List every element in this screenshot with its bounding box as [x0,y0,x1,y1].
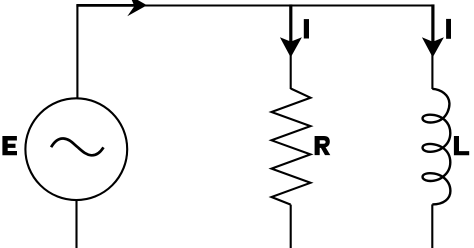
wire resistor bottom [290,205,292,248]
wire source bottom [75,200,77,248]
label I resistor branch [304,19,309,38]
arrowhead resistor branch current [280,37,302,57]
wire inductor top [431,53,433,89]
sine wave inside source [51,138,103,155]
wire inductor branch arrow shaft [431,4,434,44]
wire top horizontal [77,6,434,99]
wire resistor top [290,53,292,89]
ac source E circle [25,98,127,200]
label L [454,136,469,155]
wire inductor bottom [431,204,433,248]
arrowhead supply current [127,0,147,16]
arrowhead inductor branch current [422,37,444,57]
wire supply current bold segment [76,4,138,7]
label R [315,136,331,155]
label E [2,136,17,155]
inductor L coil [423,89,451,205]
resistor R zigzag [272,89,311,205]
wire resistor branch arrow shaft [289,4,292,44]
label I inductor branch [446,19,451,39]
